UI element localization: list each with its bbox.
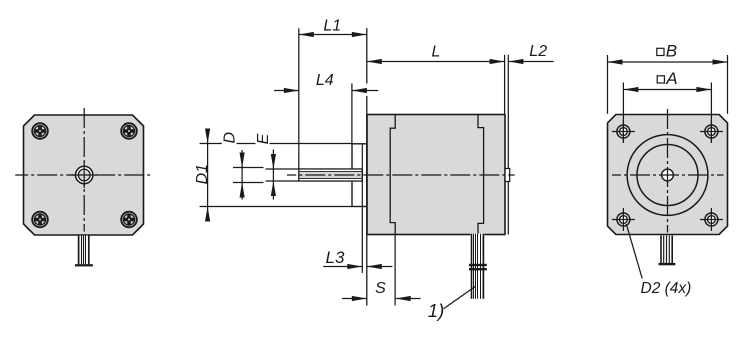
screw top-right	[121, 123, 137, 139]
dimension L3	[323, 266, 362, 268]
extension lines square A	[622, 83, 624, 143]
svg-text:L3: L3	[326, 248, 345, 267]
dimension D1	[207, 131, 209, 219]
shaft	[299, 169, 362, 181]
svg-text:L1: L1	[323, 18, 341, 35]
screw bottom-left	[32, 212, 48, 228]
hole bottom-left	[612, 208, 635, 231]
side wires	[470, 234, 484, 299]
front boss	[352, 144, 367, 207]
boss seam line	[361, 144, 363, 207]
extension line body rear	[504, 55, 506, 114]
svg-text:D: D	[222, 131, 239, 143]
front vertical centerline	[83, 106, 85, 232]
motor body	[367, 115, 505, 235]
dimension D	[241, 150, 243, 200]
dimension square B	[608, 61, 728, 63]
extension line flange rear	[361, 207, 363, 273]
body left corner step line	[390, 115, 395, 235]
front wire end cap	[75, 264, 93, 266]
dimension S	[342, 298, 367, 300]
rear plate	[608, 115, 728, 235]
shaft bore	[300, 171, 362, 178]
front plate	[24, 115, 144, 235]
dimension L4	[274, 90, 299, 92]
svg-text:1): 1)	[428, 300, 444, 321]
front wires	[78, 236, 90, 265]
front hub crosshair	[71, 174, 97, 176]
rear wire end cap	[659, 263, 676, 265]
svg-text:B: B	[666, 42, 677, 61]
svg-text:D1: D1	[194, 164, 211, 184]
screw top-left	[32, 123, 48, 139]
hole bottom-right	[700, 208, 723, 231]
rear shaft circle	[662, 169, 674, 181]
svg-text:L4: L4	[316, 72, 334, 89]
rear vertical centerline	[667, 106, 669, 233]
extension line shaft end	[298, 28, 300, 169]
svg-text:D2 (4x): D2 (4x)	[641, 280, 692, 297]
front horizontal centerline	[15, 174, 151, 176]
svg-text:L: L	[432, 44, 441, 61]
dimension L	[367, 61, 505, 63]
dimension L2	[508, 61, 553, 63]
svg-text:S: S	[375, 280, 386, 297]
extension line boss face	[351, 83, 353, 143]
dimension square A	[623, 89, 711, 91]
side horizontal centerline	[287, 174, 515, 176]
front hub inner circle	[78, 169, 90, 181]
svg-text:A: A	[665, 69, 677, 88]
rear horizontal centerline	[612, 174, 724, 176]
body right corner step line	[478, 115, 484, 235]
extension lines square B	[607, 55, 609, 114]
rear boss outer circle	[627, 135, 708, 216]
rear boss inner circle	[637, 145, 698, 206]
hole top-right	[700, 120, 723, 143]
svg-text:L2: L2	[529, 43, 547, 60]
screw bottom-right	[121, 212, 137, 228]
extension line body step	[394, 235, 396, 306]
extension line flange face	[366, 28, 368, 83]
svg-text:E: E	[255, 133, 272, 144]
dimension E	[272, 150, 274, 200]
dimension L1	[299, 34, 367, 36]
front hub outer circle	[76, 166, 93, 183]
leader D2	[626, 224, 642, 279]
rear cover line / L2 extension	[507, 55, 509, 235]
rear wires	[660, 236, 673, 264]
wire clamp bands	[469, 264, 487, 266]
leader 1)	[444, 286, 476, 309]
rear shaft stub	[505, 169, 510, 182]
hole top-left	[612, 120, 635, 143]
